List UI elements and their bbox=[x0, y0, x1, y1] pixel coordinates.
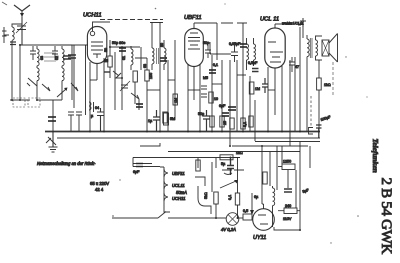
wire R15 down bbox=[215, 204, 217, 218]
resistor R15 bbox=[214, 192, 218, 204]
heater UCH11 bbox=[164, 193, 168, 201]
core bars left coils bbox=[44, 53, 56, 61]
capacitor C3 bbox=[52, 46, 58, 60]
svg-text:47: 47 bbox=[295, 65, 299, 69]
capacitor C18 bbox=[203, 110, 210, 131]
junction dots main bbox=[89, 46, 301, 231]
wire tube1 pins down bbox=[90, 58, 104, 131]
capacitor C30 bbox=[289, 57, 295, 72]
capacitor C19 5u bbox=[227, 158, 234, 176]
svg-text:50p 80e: 50p 80e bbox=[112, 41, 125, 45]
capacitor C7 blob bbox=[119, 48, 126, 51]
wire tube2 top bbox=[193, 23, 195, 29]
transformer T1 core bbox=[310, 38, 312, 58]
svg-text:Netzausschaltung an der Rück-: Netzausschaltung an der Rück- bbox=[37, 161, 96, 166]
svg-text:01: 01 bbox=[122, 56, 126, 60]
resistor R17 bbox=[196, 160, 200, 171]
svg-text:0,5µF: 0,5µF bbox=[248, 61, 258, 65]
svg-text:5µF: 5µF bbox=[302, 188, 310, 194]
svg-text:0,1: 0,1 bbox=[213, 63, 218, 67]
tube U2 UBF11 envelope bbox=[185, 29, 204, 67]
svg-text:25: 25 bbox=[223, 121, 227, 125]
svg-text:5µ: 5µ bbox=[221, 162, 226, 166]
capacitor C26 stub a bbox=[68, 112, 74, 131]
capacitor C13 blob bbox=[222, 113, 229, 116]
wire top dashed bus bbox=[100, 19, 163, 21]
svg-text:110V: 110V bbox=[283, 217, 292, 221]
svg-text:0,1: 0,1 bbox=[243, 122, 247, 127]
wire bus 4 bbox=[232, 145, 308, 147]
capacitor C21 bbox=[284, 189, 292, 192]
capacitor C27 stub b bbox=[76, 112, 82, 131]
wire osc right vertical bbox=[71, 45, 73, 100]
svg-text:1M: 1M bbox=[174, 98, 178, 103]
wire right ps verticals bbox=[270, 142, 310, 231]
capacitor C6 bbox=[104, 71, 110, 73]
coil L2 (wave band coil a) bbox=[37, 46, 39, 68]
resistor R21 bbox=[209, 92, 213, 103]
svg-text:42 4: 42 4 bbox=[95, 187, 104, 192]
capacitor C17 1u bbox=[153, 110, 160, 131]
transformer T1 secondary bbox=[316, 36, 323, 60]
svg-text:0,05µF: 0,05µF bbox=[229, 42, 241, 46]
svg-text:1250: 1250 bbox=[283, 160, 291, 164]
svg-text:1kΩ: 1kΩ bbox=[236, 151, 243, 155]
resistor R6 bbox=[220, 116, 224, 127]
wire af section bbox=[212, 158, 216, 192]
capacitor C2 (padder) bbox=[30, 46, 36, 60]
wire interconnect h bbox=[147, 89, 160, 91]
svg-text:100µF: 100µF bbox=[320, 115, 332, 122]
svg-text:UY11: UY11 bbox=[253, 235, 266, 241]
wire interconnect c bbox=[188, 89, 200, 91]
svg-text:UCH11: UCH11 bbox=[83, 13, 102, 19]
capacitor C4 (AVC blob) bbox=[68, 55, 76, 58]
capacitor C8 variable bbox=[120, 81, 130, 91]
wire det verticals 2 bbox=[243, 23, 255, 141]
coil L9 (IF2 primary) bbox=[247, 38, 249, 70]
wire interconnect f bbox=[268, 89, 275, 91]
capacitor C20 6uF bbox=[136, 164, 143, 167]
svg-text:50mA: 50mA bbox=[176, 190, 187, 195]
svg-text:03: 03 bbox=[40, 56, 44, 60]
arrow 6u bbox=[250, 193, 259, 215]
resistor R11 bbox=[263, 172, 267, 184]
capacitor C29 100uF electrolytic bbox=[316, 125, 322, 138]
wire IF1 down bbox=[160, 22, 175, 131]
tube U3 electrodes bbox=[268, 24, 283, 62]
resistor R13 bbox=[164, 113, 169, 125]
capacitor C23 0,05uF bbox=[231, 45, 238, 62]
speaker LS1 bbox=[322, 34, 338, 63]
svg-text:85: 85 bbox=[104, 59, 108, 63]
wire interconnect e bbox=[237, 74, 246, 76]
svg-text:0,1: 0,1 bbox=[228, 195, 232, 200]
dashed box (switch unit) bbox=[13, 98, 25, 107]
ground GND1 bbox=[49, 132, 58, 153]
svg-text:UBF11: UBF11 bbox=[184, 15, 202, 21]
wire R12 bbox=[318, 60, 320, 131]
resistor R1 bbox=[108, 56, 112, 67]
wire ps bottom bbox=[273, 210, 301, 230]
wire below speaker bbox=[332, 62, 334, 95]
coil L6 (osc) bbox=[131, 46, 133, 70]
coil L5 (osc coil b) bbox=[62, 68, 64, 84]
tube U4 UY11 envelope bbox=[253, 204, 275, 230]
wire main bus B+ bbox=[45, 131, 320, 133]
wire det link bbox=[210, 42, 231, 54]
resistor R14 1k horizontal bbox=[220, 155, 240, 160]
bracket clamp bbox=[309, 128, 314, 135]
svg-text:10: 10 bbox=[214, 97, 218, 101]
svg-text:µ: µ bbox=[91, 114, 93, 118]
tube U1 grid cap circle bbox=[90, 31, 94, 35]
transformer T1 primary bbox=[307, 35, 309, 62]
svg-text:1µ: 1µ bbox=[148, 119, 153, 123]
wire R16 bbox=[237, 158, 239, 218]
resistor R19 1250 horizontal bbox=[278, 164, 295, 170]
capacitor C28 at 100 bbox=[97, 108, 104, 131]
coil L1 (antenna coil) bbox=[12, 24, 22, 44]
coil L12 marks bbox=[89, 102, 94, 112]
tube U2 electrodes bbox=[188, 33, 200, 49]
heater UBF11 bbox=[164, 169, 168, 177]
potentiometer arrow bbox=[220, 180, 238, 188]
svg-text:6µF: 6µF bbox=[133, 170, 140, 174]
wire left input vertical bbox=[12, 44, 20, 100]
resistor R16 bbox=[235, 193, 239, 205]
switch S2 bbox=[113, 71, 121, 78]
svg-text:50p: 50p bbox=[203, 41, 209, 45]
svg-text:2 B 54 GWK: 2 B 54 GWK bbox=[378, 178, 394, 255]
wire h47 bbox=[110, 46, 140, 48]
tube U1 UCH11 envelope bbox=[87, 27, 106, 64]
capacitor C1 (antenna series trimmer) bbox=[16, 17, 27, 45]
svg-text:1M: 1M bbox=[255, 87, 260, 91]
capacitor C22 AM blob bbox=[63, 56, 71, 59]
svg-text:6µF: 6µF bbox=[219, 104, 226, 108]
svg-text:UCL11: UCL11 bbox=[172, 183, 185, 188]
wire rectifier top bbox=[262, 146, 264, 204]
switch S3 bbox=[131, 93, 139, 99]
coil L11 choke bbox=[273, 186, 275, 210]
svg-text:02: 02 bbox=[55, 56, 59, 60]
wire bus left ends bbox=[133, 143, 160, 167]
wire tube3 pins bbox=[268, 66, 282, 131]
coil L10 (IF2 secondary) bbox=[254, 38, 256, 66]
resistor R18 0.1 bbox=[239, 214, 252, 220]
node dots left section bbox=[11, 44, 38, 101]
svg-text:0,5: 0,5 bbox=[243, 209, 248, 213]
coil L8 (IF1 secondary) bbox=[164, 40, 166, 70]
resistor R3 bbox=[145, 70, 149, 81]
resistor R4 bbox=[163, 112, 167, 123]
wire interconnect g bbox=[90, 79, 97, 81]
wire heater bottom bbox=[164, 206, 170, 212]
capacitor C14 blob bbox=[240, 44, 247, 47]
node junction antenna bottom bbox=[10, 42, 16, 45]
wire to gang capacitor bbox=[52, 100, 54, 131]
wire mixer column bbox=[74, 45, 86, 115]
svg-text:4V 0,2A: 4V 0,2A bbox=[221, 227, 236, 232]
wire top bus 2 bbox=[150, 22, 247, 25]
wire bus 5 bbox=[168, 151, 300, 153]
resistor R23 left edge bbox=[2, 27, 9, 43]
wire band section frame bbox=[10, 45, 72, 100]
switch S1c (arrow) bbox=[57, 88, 68, 98]
wire bus 6 bbox=[133, 157, 240, 159]
svg-text:5kΩ: 5kΩ bbox=[204, 192, 208, 199]
scan specks bbox=[112, 3, 368, 243]
resistor R2 bbox=[133, 71, 137, 82]
svg-text:80: 80 bbox=[160, 43, 164, 47]
wire dashes right column bbox=[310, 96, 312, 128]
wire y45 left bbox=[60, 44, 88, 46]
wire interconnect b bbox=[168, 79, 175, 81]
wire bottom feed bbox=[112, 212, 226, 219]
switch S4 mains bbox=[46, 137, 56, 145]
capacitor C25 blob bbox=[228, 107, 236, 110]
bracket output bbox=[195, 158, 211, 214]
svg-text:5M: 5M bbox=[170, 117, 175, 121]
resistor R5 bbox=[173, 94, 177, 105]
wire grid line tube1 bbox=[93, 22, 111, 31]
capacitor C9 black bbox=[136, 104, 143, 107]
capacitor C16 bbox=[262, 78, 268, 93]
wire mixer area verticals bbox=[115, 46, 122, 110]
svg-text:1kΩ: 1kΩ bbox=[324, 83, 331, 87]
coil L7 (IF1 primary) bbox=[152, 22, 154, 70]
wire bus 3 bbox=[255, 141, 320, 143]
heater chain wire bbox=[160, 167, 164, 206]
resistor R8 bbox=[210, 116, 214, 127]
svg-text:UCH11: UCH11 bbox=[172, 196, 185, 201]
svg-text:65 u 220V: 65 u 220V bbox=[90, 181, 109, 186]
svg-text:UCL 11: UCL 11 bbox=[260, 17, 279, 23]
wire tube2 pins bbox=[188, 64, 200, 131]
wire det area bbox=[212, 23, 237, 146]
IF1 core bbox=[157, 48, 159, 64]
resistor R10 bbox=[249, 116, 253, 127]
capacitor C12 blob bbox=[209, 70, 216, 73]
capacitor C11 50p bbox=[205, 45, 211, 58]
heater UCL11 bbox=[164, 181, 168, 189]
tube U1 electrodes bbox=[91, 42, 103, 58]
svg-text:50: 50 bbox=[104, 48, 108, 52]
coil L4 (osc coil a) bbox=[62, 46, 64, 68]
svg-text:Telefunken: Telefunken bbox=[371, 139, 380, 173]
dashed box (switch unit b) bbox=[28, 98, 40, 107]
resistor R22 bbox=[249, 82, 254, 94]
switch S1a (band switch) bbox=[27, 78, 37, 86]
wire speaker top mark bbox=[298, 18, 306, 27]
capacitor C10 blob bbox=[160, 58, 167, 61]
antenna A1 bbox=[14, 5, 30, 45]
capacitor C15 blob bbox=[252, 69, 259, 72]
tube U3 UCL11 envelope bbox=[265, 28, 285, 68]
coil L3 (wave band coil b) bbox=[37, 68, 39, 84]
svg-text:M5: M5 bbox=[203, 76, 208, 80]
svg-text:04: 04 bbox=[95, 106, 99, 110]
resistor R7 bbox=[230, 118, 234, 129]
wire right verticals bbox=[290, 27, 307, 146]
resistor R9 bbox=[241, 118, 245, 129]
svg-text:6µ: 6µ bbox=[254, 195, 259, 199]
wire tube3 top to transformer bbox=[275, 24, 303, 38]
wire osc coil area bbox=[135, 47, 147, 110]
svg-text:50p: 50p bbox=[198, 112, 204, 116]
wire r3 bbox=[146, 58, 148, 131]
svg-text:100: 100 bbox=[149, 73, 153, 79]
capacitor C24 stack bbox=[201, 86, 207, 97]
lamp LP1 pilot bbox=[226, 213, 239, 226]
wire interconnect d bbox=[212, 83, 222, 85]
resistor R12 bbox=[317, 78, 322, 90]
svg-text:240: 240 bbox=[285, 204, 291, 208]
switch S1b bbox=[42, 84, 50, 91]
junction cluster af bbox=[222, 170, 244, 175]
svg-text:UBF11: UBF11 bbox=[172, 171, 185, 176]
svg-text:63: 63 bbox=[143, 64, 147, 68]
corner mark bbox=[2, 2, 7, 5]
wire bus 2 bbox=[57, 137, 320, 139]
wire interconnect a bbox=[115, 77, 122, 79]
wire bus 7 bbox=[133, 164, 160, 167]
wire R1 bbox=[109, 40, 111, 78]
capacitor C5 electrolytic 5u bbox=[48, 117, 56, 121]
resistor R20 240 horizontal bbox=[278, 208, 300, 214]
switch S5 bbox=[71, 83, 78, 91]
